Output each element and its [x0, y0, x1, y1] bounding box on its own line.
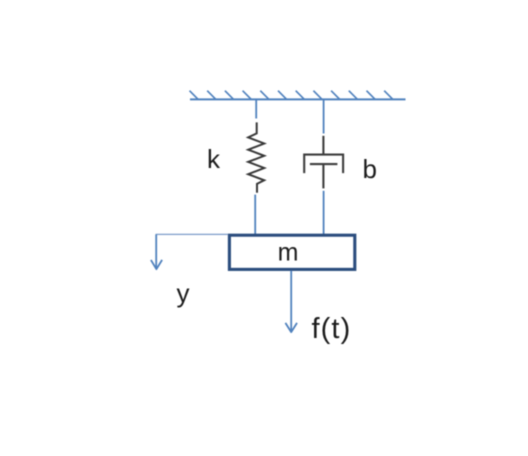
mass m block [229, 235, 354, 269]
wire: ceiling to damper rod [323, 99, 325, 133]
arrow f(t) (downward) [285, 271, 297, 333]
ceiling hatching [190, 91, 393, 100]
wire: y reference horizontal [156, 233, 228, 235]
wire: ceiling to spring top [255, 99, 257, 118]
svg-text:f(t): f(t) [312, 313, 352, 345]
wire: damper rod to mass [323, 191, 325, 235]
wire: spring bottom to mass [254, 195, 256, 235]
svg-text:k: k [207, 144, 221, 174]
spring k [248, 122, 264, 192]
svg-text:m: m [278, 238, 299, 266]
svg-text:b: b [363, 154, 377, 184]
fixed ceiling line [190, 98, 406, 100]
svg-text:y: y [177, 278, 190, 308]
damper b [304, 136, 343, 189]
arrow y (downward) [151, 234, 162, 269]
